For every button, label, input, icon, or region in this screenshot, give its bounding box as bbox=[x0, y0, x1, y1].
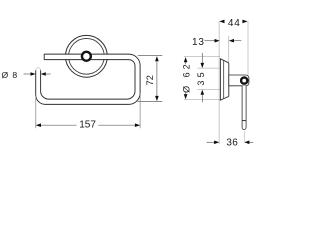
dim o62 line lower segment bbox=[185, 92, 187, 94]
dim 36 right tail line bbox=[249, 141, 253, 143]
svg-text:72: 72 bbox=[145, 75, 155, 85]
dim 35 bottom arrowhead pointing up bbox=[201, 90, 205, 95]
dim 36 arrowhead pointing right bbox=[214, 141, 219, 145]
ring left leg rounded tip bbox=[36, 68, 41, 70]
dim o8 right leader line bbox=[46, 73, 51, 75]
side bar hub circle bbox=[241, 78, 247, 84]
dim 35 top stem bbox=[201, 53, 203, 63]
svg-text:35: 35 bbox=[196, 69, 206, 85]
dim 35 top arrowhead pointing down bbox=[201, 63, 205, 68]
side holder bbox=[229, 75, 249, 86]
dim 72 bottom tick line bbox=[138, 101, 163, 103]
dim 157 line left segment bbox=[36, 124, 77, 126]
dim o62 line upper segment bbox=[185, 62, 187, 64]
side ring bar joint tick bbox=[242, 120, 246, 122]
dim 13 right tail line bbox=[234, 40, 241, 42]
side rosette profile bbox=[220, 59, 228, 100]
dim o8 left leader line bbox=[24, 73, 31, 75]
dim 36 bar tip extension line bbox=[244, 131, 246, 142]
dim 35 bottom stem bbox=[201, 95, 203, 103]
dim 72 bottom arrowhead bbox=[155, 96, 159, 101]
dim 13 leader line bbox=[205, 40, 216, 42]
dim o62 bottom arrowhead pointing down bbox=[184, 94, 188, 99]
rosette front view outer circle bbox=[66, 35, 108, 77]
dim 157 right arrowhead bbox=[135, 123, 140, 127]
dim 13 arrowhead pointing left bbox=[229, 39, 234, 43]
side view wall extension line bbox=[218, 21, 220, 145]
dim 13 arrowhead pointing right bbox=[215, 39, 220, 43]
svg-text:8: 8 bbox=[12, 70, 17, 80]
dim 35 top tick bbox=[197, 67, 220, 69]
ring tube outer path bbox=[36, 54, 140, 104]
svg-text:157: 157 bbox=[79, 120, 96, 131]
dim 157 line right segment bbox=[98, 124, 140, 126]
dim 36 left leader line bbox=[207, 141, 215, 143]
dim o62 top tick bbox=[184, 56, 220, 58]
dim o62 bottom tick bbox=[184, 99, 220, 101]
dim o8 arrowhead pointing right bbox=[31, 72, 36, 76]
svg-text:36: 36 bbox=[226, 137, 238, 148]
dim o8 arrowhead pointing left bbox=[41, 72, 46, 76]
dim 13 right extension line bbox=[228, 36, 230, 62]
dim 44 left arrowhead bbox=[219, 20, 224, 24]
dim 44 right arrowhead bbox=[242, 20, 247, 24]
svg-text:Ø: Ø bbox=[2, 70, 9, 80]
rosette front view inner circle bbox=[69, 38, 105, 74]
dim 157 left extension line bbox=[35, 96, 37, 129]
svg-text:13: 13 bbox=[192, 37, 205, 48]
svg-text:Ø 62: Ø 62 bbox=[182, 61, 192, 93]
dim o62 top arrowhead pointing up bbox=[184, 57, 188, 62]
side ring bar bbox=[242, 86, 246, 130]
side rosette mid line bbox=[223, 60, 225, 98]
ring tube inner path bbox=[41, 60, 135, 100]
dim 72 line bbox=[156, 61, 158, 96]
dim 157 right extension line bbox=[139, 94, 141, 129]
dim 36 arrowhead pointing left bbox=[244, 141, 249, 145]
dim 157 left arrowhead bbox=[36, 123, 41, 127]
dim 72 top tick line bbox=[138, 55, 163, 57]
rosette hub ring bbox=[82, 52, 91, 61]
dim 72 top arrowhead bbox=[155, 56, 159, 61]
dim 44 right extension line bbox=[247, 21, 249, 75]
ring bar left end cap bbox=[43, 54, 45, 60]
svg-text:44: 44 bbox=[228, 18, 241, 29]
ring bar white fill over rosette bbox=[44, 55, 140, 60]
dim 35 bottom tick bbox=[197, 89, 220, 91]
